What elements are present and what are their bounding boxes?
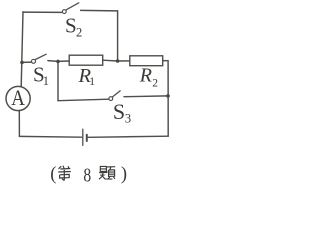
wire R2 to right rail	[163, 60, 168, 62]
caption character TI (题)	[99, 166, 115, 179]
svg-text:1: 1	[43, 74, 49, 88]
svg-text:S: S	[113, 99, 125, 124]
wire R1 to node C	[103, 59, 118, 62]
svg-text:): )	[121, 165, 127, 185]
svg-text:S: S	[65, 13, 77, 37]
wire from node A to S1	[22, 61, 31, 63]
node B junction dot	[56, 60, 60, 64]
svg-text:2: 2	[152, 77, 158, 89]
wire top horizontal left of S2	[23, 11, 62, 13]
node C junction dot	[116, 59, 120, 63]
battery long plate	[82, 129, 84, 145]
switch S3	[109, 91, 120, 101]
svg-text:1: 1	[89, 76, 95, 88]
wire bottom horizontal right of battery	[88, 136, 168, 137]
battery short plate	[86, 135, 88, 141]
wire bottom left vertical below ammeter	[18, 110, 20, 136]
switch S2	[62, 3, 78, 14]
wire top-left vertical	[21, 12, 23, 87]
switch S1	[32, 54, 47, 63]
ammeter A1 circle	[6, 86, 30, 110]
svg-text:8: 8	[83, 163, 91, 185]
wire vertical down to R1-R2 node	[117, 11, 119, 61]
svg-text:A: A	[11, 85, 25, 110]
wire S3 to right rail node D	[124, 95, 168, 98]
wire node B to R1	[58, 60, 69, 62]
svg-text:3: 3	[125, 112, 131, 126]
wire bottom horizontal left of battery	[19, 135, 81, 138]
node A junction dot	[20, 61, 24, 65]
resistor R1	[69, 55, 103, 65]
wire S1 to node B	[48, 60, 58, 63]
svg-text:R: R	[139, 65, 152, 87]
wire right vertical rail	[167, 61, 169, 137]
wire S3 branch vertical from node B	[57, 62, 59, 101]
svg-text:2: 2	[76, 25, 82, 39]
svg-text:(: (	[50, 164, 56, 184]
wire S3 branch horizontal to switch	[58, 99, 109, 101]
wire top horizontal right of S2	[81, 9, 118, 12]
caption character DI (第)	[58, 166, 71, 181]
wire node C to R2	[118, 60, 130, 62]
resistor R2	[130, 56, 163, 66]
node D junction dot	[166, 94, 170, 98]
